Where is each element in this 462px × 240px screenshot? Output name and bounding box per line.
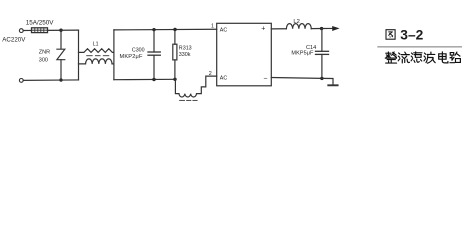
wire: L2 to output node [311, 28, 321, 30]
wire: top rail L1 to bridge pin 1 [114, 28, 217, 31]
arrow: DC output [322, 26, 340, 31]
capacitor C300 [148, 30, 160, 80]
svg-text:+: + [261, 25, 265, 32]
inductor L2 [286, 24, 311, 29]
wire: node to ground stub [322, 78, 333, 84]
varistor ZNR 300 [57, 30, 65, 80]
wire: terminal to fuse [23, 29, 31, 31]
fuse F 15A/250V [32, 28, 48, 33]
common-mode choke L1 [79, 30, 114, 80]
svg-text:L2: L2 [293, 19, 299, 25]
wire: fuse to node A [48, 29, 62, 31]
svg-text:C300: C300 [132, 48, 145, 54]
svg-text:MKP5μF: MKP5μF [291, 50, 314, 56]
node: C14 bottom junction [320, 77, 323, 80]
svg-text:AC: AC [220, 28, 228, 34]
node: C300 top junction [152, 28, 155, 31]
svg-text:3–2: 3–2 [400, 27, 423, 42]
node A: ZNR top junction [59, 29, 62, 32]
glyph 电 [439, 52, 448, 63]
capacitor C14 [316, 29, 329, 79]
inductor L3 (bottom return line) [175, 76, 216, 100]
caption: figure glyph 图 [386, 30, 395, 40]
caption text: 整流滤波电路 (drawn glyphs) [385, 52, 460, 63]
wire: node B to L1 left rail [61, 79, 79, 81]
wire: bottom rail left [23, 79, 61, 81]
svg-text:330k: 330k [179, 52, 191, 58]
terminal: AC input bottom [19, 79, 23, 83]
resistor R313 330k [173, 30, 177, 80]
svg-text:L1: L1 [93, 42, 99, 48]
glyph 波 [424, 52, 435, 63]
node: DC+ output junction [320, 27, 323, 30]
svg-text:1: 1 [211, 23, 214, 29]
svg-text:2: 2 [209, 71, 212, 77]
node B: ZNR bottom junction [59, 78, 62, 81]
wire: bridge + to L2 [271, 28, 286, 30]
wire: bridge - to ground node [271, 77, 322, 80]
glyph 流 [398, 52, 409, 63]
svg-text:300: 300 [39, 57, 48, 63]
svg-text:MKP2μF: MKP2μF [120, 54, 143, 60]
node: R313 bottom junction [173, 78, 176, 81]
node: C300 bottom junction [152, 78, 155, 81]
wire: node A to L1 left rail [61, 29, 79, 31]
node: R313 top junction [173, 28, 176, 31]
wire: bottom rail L1 to R313 [114, 78, 175, 80]
caption rule [377, 46, 462, 48]
glyph 整 [385, 52, 396, 63]
svg-text:−: − [263, 76, 267, 83]
ground [328, 84, 337, 86]
glyph 路 [450, 52, 460, 63]
svg-text:AC220V: AC220V [2, 36, 26, 43]
glyph 滤 [411, 52, 422, 63]
terminal: AC input top [19, 29, 23, 33]
svg-text:15A/250V: 15A/250V [26, 20, 54, 27]
bridge rectifier U1 [217, 23, 272, 86]
svg-text:R313: R313 [179, 45, 192, 51]
svg-text:AC: AC [220, 75, 228, 81]
svg-text:ZNR: ZNR [39, 49, 50, 55]
